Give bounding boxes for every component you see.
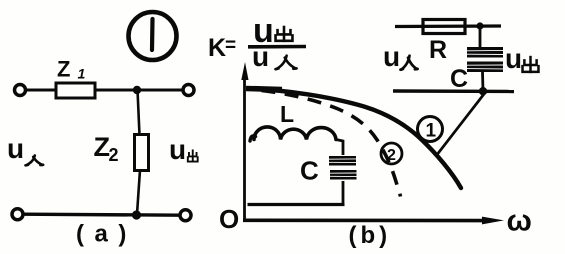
svg-text:=: = xyxy=(225,35,236,56)
svg-text:ω: ω xyxy=(507,205,532,238)
svg-text:1: 1 xyxy=(426,121,437,142)
svg-text:u: u xyxy=(169,134,186,165)
svg-text:(b): (b) xyxy=(349,222,392,249)
svg-text:u: u xyxy=(383,41,400,72)
svg-text:u: u xyxy=(252,41,269,72)
svg-text:2: 2 xyxy=(387,147,396,164)
svg-text:C: C xyxy=(300,156,319,186)
svg-text:R: R xyxy=(429,36,447,64)
svg-text:(a): (a) xyxy=(76,221,137,248)
svg-text:L: L xyxy=(280,101,294,127)
svg-text:u: u xyxy=(505,43,522,74)
svg-text:O: O xyxy=(219,204,239,234)
svg-text:u: u xyxy=(7,133,24,164)
svg-text:K: K xyxy=(208,34,226,62)
svg-text:C: C xyxy=(450,65,468,93)
svg-text:Z: Z xyxy=(57,57,70,82)
svg-text:1: 1 xyxy=(78,66,86,82)
svg-text:2: 2 xyxy=(109,145,119,165)
